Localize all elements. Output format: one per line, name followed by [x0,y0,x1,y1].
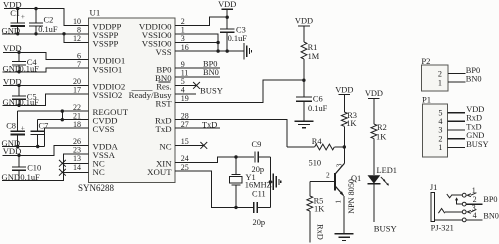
junction C5 [17,84,20,87]
wire pin 25 XOUT to crystal [175,171,253,207]
junction jumper [61,109,64,112]
J1 contact 3 (ring switch) [438,204,476,214]
net label GND (rail 1) [2,25,21,35]
J1 contact 4 (sleeve) wire to BN0 [434,211,482,222]
svg-text:1: 1 [438,78,442,87]
wire GND rail (block 4) [2,146,44,148]
wire pin 16 VSS to ground [175,50,244,52]
wire pin 5 Res. with no-connect X [175,82,200,89]
svg-text:U1: U1 [90,7,101,17]
junction crystal bottom [234,206,237,209]
svg-text:0.1uF: 0.1uF [308,104,328,113]
IC U1 right pin names [129,21,173,177]
svg-text:TxD: TxD [466,122,481,131]
svg-text:4: 4 [438,117,442,126]
svg-text:18: 18 [73,120,81,129]
IC U1 SYN6288 body [78,7,175,193]
svg-text:VDD: VDD [218,0,236,9]
wire P1 pin 1 [448,147,466,149]
capacitor C4 [12,52,38,72]
svg-text:VDD: VDD [365,89,383,98]
svg-text:510: 510 [309,159,322,168]
wire P1 pin 4 [448,120,466,122]
svg-text:RxD: RxD [315,224,324,240]
junction VSS net [216,41,219,44]
wire VDD rail to pin 6 VDDIO1 [3,52,89,59]
J1 contact 1 (tip switch) [447,186,477,198]
svg-text:1: 1 [472,186,476,195]
svg-text:20p: 20p [253,218,266,227]
svg-text:1K: 1K [346,119,356,128]
svg-text:3: 3 [335,163,344,167]
svg-text:16: 16 [181,43,189,52]
svg-text:16MHZ: 16MHZ [245,181,272,190]
svg-text:C11: C11 [252,189,266,198]
svg-text:RST: RST [155,99,172,109]
svg-text:15: 15 [181,137,189,146]
svg-text:27: 27 [181,120,189,129]
svg-text:17: 17 [73,86,81,95]
svg-text:TxD: TxD [202,121,217,130]
capacitor C10 [12,155,41,180]
wire pin 24 XIN to crystal [175,157,254,163]
svg-text:19: 19 [181,94,189,103]
capacitor C3 [220,17,247,51]
J1 contact 2 wire to BP0 [455,195,482,206]
wire GND rail branch to pin 12 VSSPP [64,34,89,43]
wire P2 pin 1 [448,81,465,83]
net label BP0 [203,59,217,68]
svg-text:BUSY: BUSY [374,223,397,233]
IC U1 left pin names [93,21,129,177]
capacitor C11 [252,189,270,227]
net label RxD (P1) [466,114,482,123]
svg-text:CVSS: CVSS [93,124,115,134]
svg-text:R4: R4 [312,137,323,146]
svg-text:VSSIO1: VSSIO1 [93,64,123,74]
IC U1 right pin numbers [181,17,189,172]
wire pin 13 NC with no-connect X [59,160,89,167]
wire GND rail to pin 8 VSSPP [2,33,89,35]
net label BUSY (LED) [374,223,397,233]
svg-text:VDD: VDD [335,85,353,94]
net label TxD (P1) [466,122,481,131]
wire pin 11 BN0 [175,76,220,78]
svg-text:3: 3 [438,126,442,135]
wire pin 19 RST to R1/C6 node [175,80,304,102]
net label BN0 (P2) [466,74,482,83]
svg-text:C2: C2 [44,15,54,24]
wire VDD rail to pin 20 VDDIO2 [3,84,89,86]
junction GND rail block 4 [16,145,19,148]
net label BP0 (P2) [466,66,480,75]
wire pin 27 TxD [175,127,220,129]
svg-text:C10: C10 [27,163,41,172]
svg-text:14: 14 [73,163,81,172]
junction C4 [17,51,20,54]
svg-text:J1: J1 [430,183,437,192]
capacitor C1 (electrolytic) [10,9,25,34]
net label BN0 (J1) [483,211,498,220]
power VDD symbol (R2) [365,89,383,98]
ground (crystal sideways earth) [273,174,281,190]
svg-text:12: 12 [73,34,81,43]
wire pin 21 CVDD to C7 [38,119,89,121]
transistor Q1 NPN 8050 [310,147,361,234]
IC U1 left pin numbers [73,17,81,172]
svg-text:C9: C9 [252,140,262,149]
connector P1 [422,95,448,157]
wire VDD rail to pin 10 VDDPP [4,9,89,26]
svg-text:P1: P1 [422,95,431,105]
net label GND (block 4) [2,138,21,148]
svg-text:P2: P2 [421,56,430,66]
svg-text:BN0: BN0 [483,211,498,220]
wire P1 pin 3 [448,129,466,131]
svg-text:1: 1 [334,200,343,204]
power VDD symbol (R1) [295,17,313,26]
net label VDD (top-left rail) [3,0,22,9]
wire GND rail to pin 17 VSSIO2 [3,94,89,105]
svg-text:0.1uF: 0.1uF [38,25,58,34]
net label GND 0.1uF (block 5) [2,172,41,182]
net label BUSY [200,86,223,96]
power VDD symbol (R3) [335,85,353,94]
connector J1 PJ-321 audio jack [430,183,454,233]
net label GND 0.1uF (block 2) [3,63,40,73]
resistor R4 510 [287,137,344,167]
svg-text:2: 2 [473,195,477,204]
junction GND rail [16,32,19,35]
resistor R5 1K [307,182,324,243]
svg-text:BUSY: BUSY [466,140,488,149]
wire VDD rail to pin 26 VDDA [3,145,89,155]
svg-text:7: 7 [77,60,81,69]
net label BUSY (P1) [466,140,488,149]
junction RST node [302,79,305,82]
svg-text:R2: R2 [377,123,387,132]
junction crystal ground [269,180,272,183]
svg-text:VSS: VSS [155,47,171,57]
wire pin 15 NC with no-connect X [175,142,207,149]
svg-text:4: 4 [473,211,477,220]
svg-text:VSSIO2: VSSIO2 [93,90,123,100]
svg-text:C1: C1 [10,9,20,18]
net label BP0 (J1) [483,195,497,204]
wire pin 22 REGOUT to C8 [18,110,89,112]
svg-text:C6: C6 [313,94,323,103]
connector P2 [421,56,448,91]
LED LED1 [368,166,397,222]
resistor R1 1M [301,26,320,80]
wire pin 1 VSSIO0 [175,34,218,51]
svg-text:SYN6288: SYN6288 [78,183,115,193]
svg-text:C8: C8 [6,121,16,130]
net label VDD (block 5) [3,146,22,156]
svg-text:2: 2 [438,134,442,143]
wire pin 28 RxD to R4 [175,120,287,147]
svg-text:VDD: VDD [295,17,313,26]
junction VDD rail / C1 C2 [16,7,19,10]
net label GND 0.1uF (block 3) [3,97,40,107]
wire pin 18 CVSS to GND rail [44,128,88,146]
svg-text:C7: C7 [39,121,49,130]
power VDD symbol (C3 / VDDIO0) [218,0,236,17]
resistor R3 1K [341,95,357,148]
svg-text:+: + [21,123,25,132]
svg-text:1K: 1K [376,132,386,141]
svg-text:BN0: BN0 [466,74,482,83]
svg-text:+: + [21,12,25,21]
wire P1 pin 2 [448,138,466,140]
svg-text:2: 2 [438,70,442,79]
svg-text:LED1: LED1 [377,166,397,175]
svg-text:NC: NC [93,167,105,177]
svg-text:GND: GND [466,131,484,140]
net label RxD (vertical, at R5) [315,224,324,240]
svg-text:1: 1 [438,143,442,152]
net label VDD (block 3) [3,77,22,87]
svg-text:BN0: BN0 [203,68,219,77]
ground (C6) [295,121,314,128]
svg-text:TxD: TxD [155,124,171,134]
ground (Q1 emitter) [335,234,354,241]
wire pin 14 NC with no-connect X [59,169,89,176]
svg-text:PJ-321: PJ-321 [431,224,454,233]
svg-text:25: 25 [181,163,189,172]
capacitor C2 [29,9,58,34]
net label BN0 [203,68,219,77]
wire crystal right leg [270,157,273,207]
net label VDD (block 2) [3,43,22,53]
junction R3/R4/collector [343,145,346,148]
wire pin 4 Ready/Busy [175,93,196,95]
svg-text:XOUT: XOUT [147,167,172,177]
junction crystal top [234,155,237,158]
capacitor C6 [296,80,328,121]
resistor R2 1K [371,98,387,175]
net label GND (P1) [466,131,484,140]
ground (VSS sideways earth) [244,43,252,59]
net label VDD (P1) [466,105,484,114]
svg-text:5: 5 [438,108,442,117]
wire P2 pin 2 [448,73,465,75]
svg-text:VSSPP: VSSPP [93,39,119,49]
wire pin 2 VDDIO0 to VDD [175,17,227,25]
capacitor C8 (electrolytic) [6,111,25,146]
wire jumper REGOUT-CVDD [61,111,63,120]
wire P1 pin 5 [448,112,466,114]
svg-text:BUSY: BUSY [200,86,223,96]
capacitor C7 [31,120,49,147]
svg-text:0.1uF: 0.1uF [228,34,248,43]
svg-text:BP0: BP0 [483,195,497,204]
wire pin 9 BP0 [175,67,220,69]
net label TxD [202,121,217,130]
junction C10 [17,154,20,157]
wire GND rail to pin 7 VSSIO1 [3,68,89,72]
crystal Y1 16MHZ [230,157,272,207]
svg-text:2: 2 [326,170,330,179]
capacitor C9 [252,140,271,174]
svg-text:1M: 1M [308,52,320,61]
junction VDD / C3 top [226,16,229,19]
wire GND rail to pin 23 VSSA [2,154,89,180]
capacitor C5 [12,85,37,105]
wire pin 3 VSSIO0 [175,42,218,44]
svg-text:1K: 1K [314,205,324,214]
svg-text:NC: NC [159,141,171,151]
svg-text:NPN 8050: NPN 8050 [347,179,356,214]
